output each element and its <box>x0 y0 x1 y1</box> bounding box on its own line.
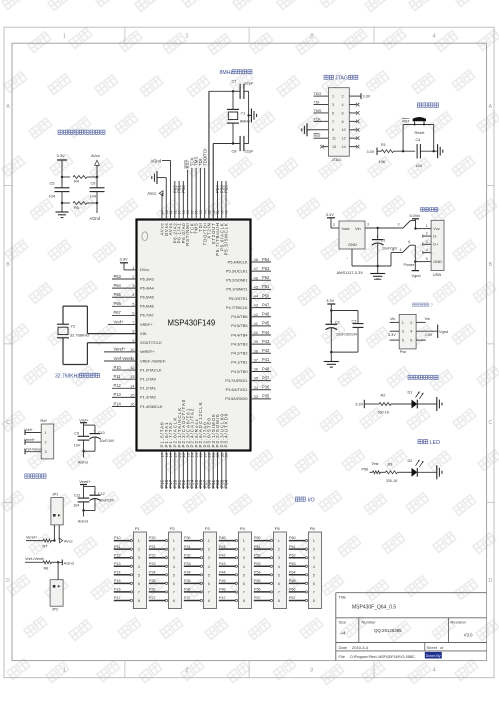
svg-text:A4: A4 <box>340 631 346 636</box>
svg-text:P6.6/A6: P6.6/A6 <box>140 304 154 309</box>
svg-text:1: 1 <box>278 539 280 543</box>
svg-text:104: 104 <box>90 194 97 199</box>
bottom wire of Veref+ caps to AGnd <box>84 510 96 512</box>
svg-text:Vgnd: Vgnd <box>439 329 448 334</box>
svg-text:R3: R3 <box>388 462 393 466</box>
svg-text:P4.7/TBCLK: P4.7/TBCLK <box>226 305 248 310</box>
svg-text:10uF/16V: 10uF/16V <box>100 439 115 443</box>
svg-text:15: 15 <box>130 392 135 397</box>
svg-text:P30: P30 <box>184 536 191 540</box>
U1 top pin stubs and pin numbers 64-49 <box>161 193 163 219</box>
svg-text:JP2: JP2 <box>52 608 59 612</box>
svg-text:1: 1 <box>332 95 334 99</box>
svg-text:3: 3 <box>310 668 313 674</box>
section title I/O headers (CJK) <box>296 497 300 501</box>
svg-text:4: 4 <box>313 565 315 569</box>
svg-text:P26: P26 <box>149 588 156 592</box>
wire XT2OUT from 8MHz loop down to U1 <box>212 144 214 220</box>
svg-text:P6.5/A5: P6.5/A5 <box>140 295 154 300</box>
svg-text:32: 32 <box>224 453 229 457</box>
svg-text:2: 2 <box>45 441 47 445</box>
svg-text:5: 5 <box>173 573 175 577</box>
svg-text:P61: P61 <box>289 545 296 549</box>
svg-text:Ref: Ref <box>40 418 47 423</box>
Pwr connector right stubs <box>416 321 426 323</box>
svg-text:3: 3 <box>426 240 428 244</box>
svg-text:C9: C9 <box>74 431 79 435</box>
svg-text:3: 3 <box>45 450 47 454</box>
capacitor C1 10uF/16V <box>377 227 379 229</box>
svg-text:8: 8 <box>243 599 245 603</box>
svg-text:4: 4 <box>432 668 435 674</box>
svg-text:3: 3 <box>398 223 400 227</box>
svg-text:104: 104 <box>73 504 79 508</box>
svg-text:5: 5 <box>332 111 334 115</box>
svg-text:P3.5/URXD0: P3.5/URXD0 <box>225 396 248 401</box>
svg-text:P41: P41 <box>262 357 270 362</box>
svg-text:2: 2 <box>278 548 280 552</box>
svg-text:6: 6 <box>173 582 175 586</box>
svg-text:P42: P42 <box>219 553 226 557</box>
svg-text:P1.0/TACLK: P1.0/TACLK <box>140 367 162 372</box>
svg-text:1: 1 <box>45 431 47 435</box>
svg-text:10uF/16V: 10uF/16V <box>382 247 398 251</box>
svg-text:P1: P1 <box>135 526 141 531</box>
svg-text:TDO: TDO <box>314 92 322 96</box>
svg-text:P40: P40 <box>219 536 226 540</box>
svg-text:P6.7/A7: P6.7/A7 <box>140 313 154 318</box>
svg-text:R2: R2 <box>381 394 386 398</box>
svg-text:41: 41 <box>254 321 259 326</box>
svg-text:+: + <box>94 491 96 495</box>
svg-text:48: 48 <box>254 257 259 262</box>
bottom wire of decoupling loop <box>331 351 358 353</box>
svg-text:6: 6 <box>313 582 315 586</box>
svg-text:P66: P66 <box>289 588 296 592</box>
svg-text:Vgnd: Vgnd <box>412 273 421 278</box>
svg-text:GND: GND <box>348 242 357 247</box>
svg-text:P54: P54 <box>262 257 270 262</box>
svg-text:P46: P46 <box>262 312 270 317</box>
svg-text:4: 4 <box>342 103 344 107</box>
svg-text:3: 3 <box>332 103 334 107</box>
svg-text:Power: Power <box>404 263 415 267</box>
LED D2 <box>412 468 418 477</box>
svg-text:33: 33 <box>254 394 259 399</box>
svg-text:P16: P16 <box>114 588 121 592</box>
svg-text:XOUT/TCLK: XOUT/TCLK <box>140 340 162 345</box>
svg-text:5: 5 <box>278 573 280 577</box>
svg-text:P2: P2 <box>170 526 176 531</box>
resistor R1 10K <box>380 150 382 152</box>
svg-text:3.3V: 3.3V <box>326 212 334 217</box>
svg-text:P11: P11 <box>114 374 122 379</box>
svg-text:3: 3 <box>173 556 175 560</box>
svg-text:P37: P37 <box>262 375 270 380</box>
svg-text:7: 7 <box>208 590 210 594</box>
svg-text:P65: P65 <box>114 292 122 297</box>
svg-text:36: 36 <box>254 367 259 372</box>
net label AGnd at U1 pin 62 <box>162 160 171 162</box>
svg-text:2: 2 <box>426 232 428 236</box>
svg-text:P53: P53 <box>262 266 270 271</box>
svg-text:P62: P62 <box>289 553 296 557</box>
svg-text:3: 3 <box>208 556 210 560</box>
3.3V rail at U1 pin 1 <box>124 269 137 271</box>
svg-text:2: 2 <box>208 548 210 552</box>
svg-text:1: 1 <box>243 539 245 543</box>
svg-text:D+: D+ <box>433 242 439 247</box>
wire ground crossover to USB GND <box>390 253 392 267</box>
svg-text:P20: P20 <box>149 536 156 540</box>
svg-text:P43: P43 <box>262 339 270 344</box>
svg-text:Vin: Vin <box>355 226 361 231</box>
wire 5.0Vin crossover to USB Vcc <box>403 221 411 229</box>
push button RESET <box>413 117 426 121</box>
svg-text:P23: P23 <box>149 562 156 566</box>
svg-text:46: 46 <box>254 275 259 280</box>
svg-text:8: 8 <box>208 599 210 603</box>
svg-text:RST: RST <box>314 134 322 138</box>
svg-text:4: 4 <box>410 330 412 334</box>
LED D1 <box>412 400 418 409</box>
svg-text:AGnd: AGnd <box>90 216 101 221</box>
svg-text:8: 8 <box>278 599 280 603</box>
svg-text:3.3V: 3.3V <box>120 257 129 262</box>
svg-text:P25: P25 <box>149 579 156 583</box>
regulator U2 AMS1117-3.3V body <box>339 221 365 249</box>
svg-text:8: 8 <box>342 120 344 124</box>
svg-text:Vin: Vin <box>390 317 395 321</box>
svg-text:13: 13 <box>332 145 336 149</box>
svg-text:+: + <box>94 429 96 433</box>
svg-text:QQ:29126385: QQ:29126385 <box>374 628 402 633</box>
svg-text:Date: Date <box>339 645 348 650</box>
JTAG left stubs TDO TDI TMS TCK <box>314 95 329 97</box>
svg-text:P33: P33 <box>184 562 191 566</box>
resistor R2 330-1K <box>379 403 391 406</box>
svg-text:C7: C7 <box>232 79 237 84</box>
svg-text:P36: P36 <box>184 588 191 592</box>
reset main wire <box>395 150 415 152</box>
capacitor C11 104 <box>84 486 96 488</box>
svg-text:P1.2/TA1: P1.2/TA1 <box>140 386 156 391</box>
svg-text:104: 104 <box>49 194 56 199</box>
svg-text:P35: P35 <box>184 579 191 583</box>
net label AGnd at R8 <box>58 561 62 563</box>
svg-text:P55: P55 <box>254 579 261 583</box>
svg-text:Y2: Y2 <box>71 324 76 329</box>
svg-text:P31: P31 <box>184 545 191 549</box>
svg-text:P10: P10 <box>114 536 121 540</box>
svg-text:P6.3/A3: P6.3/A3 <box>140 276 154 281</box>
svg-text:USB: USB <box>433 272 442 277</box>
svg-text:2: 2 <box>342 95 344 99</box>
svg-text:4: 4 <box>208 565 210 569</box>
svg-text:49: 49 <box>224 210 229 214</box>
svg-text:Vref-/Veref-: Vref-/Veref- <box>25 556 45 561</box>
svg-text:File: File <box>339 654 346 659</box>
svg-text:32.768KHz: 32.768KHz <box>70 333 89 338</box>
wire AVcc to U1 pin 64 <box>162 192 163 194</box>
svg-text:P5.1/SIMO1: P5.1/SIMO1 <box>226 287 247 292</box>
svg-text:47: 47 <box>254 266 259 271</box>
svg-text:104: 104 <box>74 444 80 448</box>
svg-text:C2: C2 <box>335 321 340 325</box>
svg-text:3.3V: 3.3V <box>425 333 433 337</box>
svg-text:Vref-Veref-: Vref-Veref- <box>114 356 134 361</box>
svg-text:P53: P53 <box>254 562 261 566</box>
crystal Y1 8MHz <box>232 91 234 109</box>
svg-text:P4.0/TB0: P4.0/TB0 <box>231 369 248 374</box>
svg-text:2: 2 <box>410 321 412 325</box>
title block frame <box>335 593 337 661</box>
svg-text:2: 2 <box>243 548 245 552</box>
svg-text:4: 4 <box>426 248 428 252</box>
Pwr pin4 wire to Vgnd rail <box>416 330 438 332</box>
svg-text:P14: P14 <box>114 570 121 574</box>
svg-text:1: 1 <box>138 539 140 543</box>
svg-text:37: 37 <box>254 357 259 362</box>
wire Vin from regulator <box>365 227 403 229</box>
svg-text:P44: P44 <box>219 570 226 574</box>
svg-text:104: 104 <box>351 333 357 337</box>
svg-text:12: 12 <box>130 365 135 370</box>
svg-text:P43: P43 <box>219 562 226 566</box>
svg-text:P40: P40 <box>262 366 270 371</box>
ground (digital) at U1 pin 63 <box>158 177 167 179</box>
capacitor C7 22pF top of 8MHz loop <box>209 90 240 92</box>
reset button branch wires <box>402 125 404 152</box>
svg-text:12: 12 <box>342 137 346 141</box>
highlighted Drawn By cell <box>425 652 442 659</box>
connector P2 wires and net labels <box>149 540 165 542</box>
svg-text:P27: P27 <box>149 596 156 600</box>
svg-text:VREF+: VREF+ <box>140 322 153 327</box>
JTAG pin11 RST stub <box>314 137 329 139</box>
svg-text:3.3V: 3.3V <box>363 94 371 98</box>
JP1 legs <box>53 525 55 541</box>
svg-text:AGnd: AGnd <box>78 460 88 465</box>
svg-text:P3.7/URXD1: P3.7/URXD1 <box>225 378 247 383</box>
U1 logo mark <box>142 232 148 241</box>
svg-text:MSP430F149: MSP430F149 <box>168 319 216 328</box>
svg-text:P21: P21 <box>149 545 156 549</box>
connector P3 wires and net labels <box>184 540 200 542</box>
capacitor C4 104 series <box>416 144 418 159</box>
svg-text:AGnd: AGnd <box>78 519 88 524</box>
svg-text:3: 3 <box>310 34 313 40</box>
svg-text:Size: Size <box>339 620 348 625</box>
svg-text:P3.4/UTXD0: P3.4/UTXD0 <box>224 413 229 448</box>
resistor R4 <box>62 176 70 178</box>
section title digital and analog power (CJK) <box>58 130 62 134</box>
USB pin stubs and numbers <box>423 228 431 230</box>
svg-text:8: 8 <box>173 599 175 603</box>
svg-text:P47: P47 <box>219 596 226 600</box>
capacitor C10 10uF/16V <box>94 425 96 434</box>
svg-text:P46: P46 <box>219 588 226 592</box>
svg-text:42: 42 <box>254 312 259 317</box>
svg-text:5: 5 <box>208 573 210 577</box>
svg-text:34: 34 <box>254 385 259 390</box>
svg-text:Vcc: Vcc <box>433 226 440 231</box>
capacitor C6 104 <box>96 186 98 188</box>
svg-text:P50: P50 <box>254 536 261 540</box>
svg-text:8: 8 <box>313 599 315 603</box>
svg-text:C6: C6 <box>91 181 96 186</box>
svg-text:P34: P34 <box>184 570 191 574</box>
svg-text:5: 5 <box>402 339 404 343</box>
svg-text:D1: D1 <box>408 391 413 395</box>
U1 right pin stubs and pin numbers 48-33 <box>251 261 272 263</box>
net label AGnd below C6 <box>96 203 98 213</box>
JTAG pin13 no-connect <box>323 146 328 148</box>
svg-text:2: 2 <box>173 548 175 552</box>
svg-text:P37: P37 <box>184 596 191 600</box>
svg-text:TCK: TCK <box>314 117 322 121</box>
svg-text:3: 3 <box>313 556 315 560</box>
svg-text:5: 5 <box>243 573 245 577</box>
svg-text:C3: C3 <box>352 319 357 323</box>
wire XIN loop from U1 pin 8 <box>87 333 136 335</box>
Pwr connector left stubs <box>390 321 400 323</box>
svg-text:P6: P6 <box>310 526 316 531</box>
svg-text:Veref+: Veref+ <box>114 347 127 352</box>
connector P5 wires and net labels <box>254 540 270 542</box>
svg-text:P51: P51 <box>262 284 270 289</box>
svg-text:LED: LED <box>430 440 441 446</box>
Ref left stubs with net rails Vref+ Veref+ Vref-/Veref- <box>25 432 41 434</box>
svg-text:3.3V: 3.3V <box>326 298 334 303</box>
svg-text:4: 4 <box>243 565 245 569</box>
svg-text:P45: P45 <box>262 321 270 326</box>
svg-text:P36: P36 <box>262 385 270 390</box>
svg-text:10uF/16V: 10uF/16V <box>336 333 352 337</box>
net label Power and junction <box>414 260 416 262</box>
svg-text:Reset: Reset <box>415 131 426 135</box>
capacitor C3 104 <box>357 311 359 324</box>
svg-text:XIN: XIN <box>140 331 147 336</box>
svg-text:43: 43 <box>254 303 259 308</box>
svg-text:1: 1 <box>313 539 315 543</box>
capacitor C5 104 <box>61 186 63 188</box>
svg-text:C: C <box>6 420 10 426</box>
svg-text:7: 7 <box>138 590 140 594</box>
junction dots power block <box>61 176 63 178</box>
section title reset circuit (CJK) <box>417 103 421 107</box>
svg-text:6: 6 <box>408 240 410 244</box>
svg-text:P3: P3 <box>205 526 211 531</box>
svg-text:P5.4/MCLK: P5.4/MCLK <box>228 259 248 264</box>
svg-text:Veref+: Veref+ <box>26 534 38 539</box>
svg-text:R7: R7 <box>43 545 48 549</box>
svg-text:P10: P10 <box>114 365 122 370</box>
svg-text:5: 5 <box>426 257 428 261</box>
svg-text:P47: P47 <box>262 302 270 307</box>
regulator GND leg and bottom wire <box>351 249 353 266</box>
svg-text:P6.4/A4: P6.4/A4 <box>140 285 155 290</box>
svg-text:P64: P64 <box>114 283 122 288</box>
svg-text:P56: P56 <box>362 467 369 471</box>
svg-text:P24: P24 <box>149 570 156 574</box>
svg-text:2: 2 <box>185 34 188 40</box>
jumper JP2 body <box>57 562 59 579</box>
svg-text:7: 7 <box>332 120 334 124</box>
svg-text:P60: P60 <box>289 536 296 540</box>
svg-text:Veref+: Veref+ <box>79 479 91 484</box>
svg-text:P60: P60 <box>181 185 186 193</box>
svg-text:8MHz: 8MHz <box>220 70 234 76</box>
svg-text:Vin: Vin <box>425 317 430 321</box>
svg-text:35: 35 <box>254 376 259 381</box>
svg-text:1: 1 <box>426 224 428 228</box>
svg-text:22pF: 22pF <box>245 149 254 154</box>
svg-text:7: 7 <box>313 590 315 594</box>
JTAG right no-connect stubs <box>349 104 356 106</box>
svg-text:P4.3/TB3: P4.3/TB3 <box>231 341 247 346</box>
svg-text:P22: P22 <box>149 553 156 557</box>
svg-text:TMS: TMS <box>314 109 322 113</box>
wire XOUT loop from U1 pin 9 <box>87 342 136 344</box>
connector J1 JTAG body <box>328 88 349 157</box>
svg-text:4: 4 <box>400 248 402 252</box>
svg-text:5.0Vin: 5.0Vin <box>410 214 421 218</box>
svg-text:P5.0/STE1: P5.0/STE1 <box>229 296 248 301</box>
svg-text:1: 1 <box>208 539 210 543</box>
svg-text:4: 4 <box>432 34 435 40</box>
svg-text:7: 7 <box>243 590 245 594</box>
svg-text:P52: P52 <box>262 275 270 280</box>
svg-text:14: 14 <box>130 383 135 388</box>
svg-text:P5.2/SOMI1: P5.2/SOMI1 <box>226 278 247 283</box>
svg-text:P45: P45 <box>219 579 226 583</box>
svg-text:1: 1 <box>63 668 66 674</box>
svg-text:AVcc: AVcc <box>147 191 156 196</box>
svg-text:3: 3 <box>367 223 369 227</box>
branch wire to C3 <box>330 309 332 311</box>
section title test LED (CJK) <box>418 440 422 444</box>
svg-text:+: + <box>376 235 378 239</box>
svg-text:P63: P63 <box>114 274 122 279</box>
svg-text:AGnd: AGnd <box>151 158 162 163</box>
svg-text:5: 5 <box>138 573 140 577</box>
svg-text:10: 10 <box>342 128 346 132</box>
svg-text:R1: R1 <box>381 143 386 147</box>
svg-text:2: 2 <box>138 548 140 552</box>
svg-text:Pwr: Pwr <box>400 350 407 354</box>
ground right of D2 <box>436 465 438 479</box>
svg-text:AMS1117-3.3V: AMS1117-3.3V <box>337 270 364 275</box>
svg-text:C10: C10 <box>98 431 105 435</box>
bottom wire of Vref+ caps to AGnd <box>84 450 96 452</box>
svg-text:MSP430F_Q64_0.5: MSP430F_Q64_0.5 <box>352 605 396 611</box>
ground at reset right <box>437 144 439 158</box>
capacitor C12 10uF/16V <box>94 487 96 496</box>
svg-text:TDI: TDI <box>314 101 320 105</box>
svg-text:P4.2/TB2: P4.2/TB2 <box>231 351 247 356</box>
svg-text:10uF/16V: 10uF/16V <box>99 499 114 503</box>
svg-text:GND: GND <box>433 259 442 264</box>
svg-text:45: 45 <box>254 284 259 289</box>
svg-text:Test: Test <box>372 462 380 466</box>
svg-text:44: 44 <box>254 294 259 299</box>
svg-text:C8: C8 <box>232 149 237 154</box>
svg-text:3.3V: 3.3V <box>355 403 363 407</box>
svg-text:3: 3 <box>402 330 404 334</box>
svg-text:P5.3/UCLK1: P5.3/UCLK1 <box>226 268 248 273</box>
svg-text:P13: P13 <box>114 562 121 566</box>
